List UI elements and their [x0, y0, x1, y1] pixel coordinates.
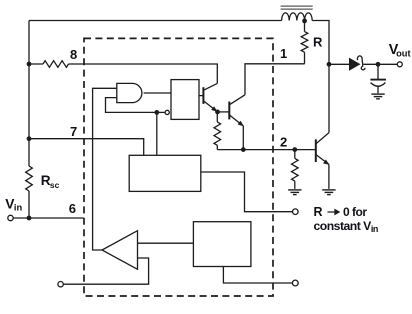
transistor Q1 driver — [199, 83, 218, 112]
wire left Vin rail — [28, 21, 30, 219]
wire reference box to timing-cap terminal — [223, 267, 292, 284]
wire comparator output to gate input 1 — [93, 88, 117, 250]
comparator U4 — [102, 231, 138, 270]
wire reference box to comparator input — [138, 242, 194, 244]
wire Q2 emitter down — [242, 126, 244, 150]
inductor L1 (tapped) — [282, 13, 313, 21]
wire pin 7 to oscillator — [29, 139, 144, 156]
wire inductor to right rail — [312, 21, 329, 133]
terminal timing cap — [292, 280, 298, 286]
oscillator U3 box — [129, 155, 201, 191]
svg-text:7: 7 — [70, 124, 77, 139]
wire comparator lower input to terminal — [63, 258, 148, 284]
ground (Q3 emitter) — [322, 190, 335, 195]
node output cap junction — [376, 62, 381, 67]
wire latch junction to oscillator — [156, 112, 158, 155]
terminal pin (R to 0) — [293, 209, 299, 215]
node Q2 emitter junction — [241, 147, 246, 152]
capacitor C1 (output, polarized) — [370, 64, 386, 93]
terminal Vout — [397, 62, 402, 67]
svg-text:8: 8 — [70, 47, 77, 62]
wire rail to diode — [329, 63, 349, 65]
node pin8 junction on rail — [27, 62, 32, 67]
node pin6 junction — [27, 216, 32, 221]
wire top rail to inductor — [29, 20, 282, 22]
node latch output junction — [154, 110, 159, 115]
wire bubble to junction — [157, 111, 165, 113]
node 2 external junction — [292, 147, 297, 152]
wire pin 6 (Vin supply) — [13, 217, 83, 219]
transistor Q3 output — [316, 133, 330, 165]
reference box U5 — [193, 222, 251, 267]
terminal comparator input — [58, 282, 63, 287]
resistor R internal (base bleed) — [214, 112, 221, 150]
svg-text:6: 6 — [69, 201, 76, 216]
diode D1 — [349, 56, 365, 71]
wire oscillator to timing terminal — [201, 172, 293, 212]
ground (external resistor) — [288, 190, 301, 195]
dashed IC boundary box — [84, 38, 273, 296]
wire Q2 collector to pin 1 — [245, 64, 305, 95]
node inductor tap junction — [302, 19, 307, 24]
latch U2 box — [171, 80, 199, 120]
wire gate output to latch — [144, 92, 171, 94]
resistor R (tap to pin 1) — [301, 23, 308, 64]
node diode branch junction — [327, 62, 332, 67]
svg-text:0 for: 0 for — [343, 205, 367, 219]
transistor Q2 switch — [229, 95, 245, 127]
svg-text:constant Vin: constant Vin — [314, 219, 378, 234]
svg-text:R: R — [314, 205, 323, 219]
label R to 0 note line1 — [314, 205, 368, 219]
wire diode to Vout terminal — [364, 63, 398, 65]
wire latch output to gate input 2 — [106, 98, 157, 113]
inductor core lines — [281, 6, 313, 9]
wire node 2 (switch emitter) — [217, 149, 315, 151]
resistor R8 (driver collector) — [29, 61, 69, 68]
terminal Vin — [8, 215, 13, 220]
node Q1 emitter junction — [215, 110, 220, 115]
wire Q3 emitter to ground — [328, 164, 330, 189]
latch inverted output bubble — [165, 110, 169, 114]
resistor R emitter (external) — [292, 150, 299, 189]
wire Q1 emitter to Q2 base — [218, 111, 230, 113]
svg-text:1: 1 — [280, 46, 287, 61]
and-gate U1 — [117, 83, 142, 102]
node pin7 junction on rail — [27, 136, 32, 141]
svg-text:2: 2 — [280, 135, 287, 150]
resistor Rsc — [26, 166, 33, 191]
svg-text:R: R — [313, 35, 323, 50]
wire pin 8 to driver collector — [69, 64, 218, 83]
ground (output cap) — [371, 94, 384, 99]
